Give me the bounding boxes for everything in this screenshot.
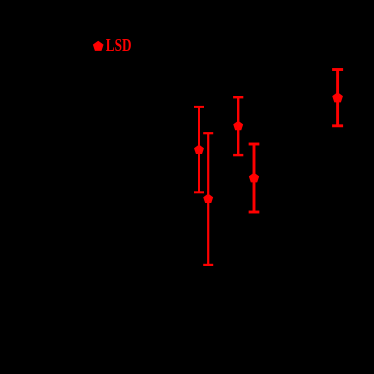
pentagon marker for point 2: [203, 194, 213, 203]
pentagon marker for point 4: [249, 173, 259, 183]
error bar for point 4: [249, 143, 260, 214]
pentagon marker for point 3: [233, 121, 243, 130]
pentagon marker for point 5: [332, 92, 343, 102]
error bar for point 3: [233, 96, 243, 156]
error bar for point 5: [332, 68, 343, 127]
legend marker: red pentagon: [93, 41, 104, 51]
pentagon marker for point 1: [194, 145, 204, 154]
error bar for point 1: [194, 106, 204, 193]
svg-text:LSD: LSD: [106, 36, 132, 55]
error bar for point 2: [203, 132, 213, 266]
